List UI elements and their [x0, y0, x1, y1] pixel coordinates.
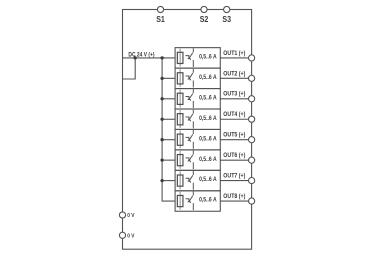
channel 5 box	[175, 129, 220, 149]
wire stub to channel 6	[162, 159, 175, 161]
svg-text:OUT6 (+): OUT6 (+)	[223, 152, 245, 159]
wire channel 7 output	[220, 180, 248, 182]
channel 6 box	[175, 150, 220, 170]
terminal 0 V #1	[119, 212, 125, 218]
svg-text:OUT2 (+): OUT2 (+)	[223, 70, 245, 77]
fuse channel 8	[177, 192, 183, 210]
terminal OUT5 (+)	[249, 137, 255, 143]
junction dot bus channel 4	[160, 118, 163, 121]
terminal OUT4 (+)	[249, 116, 255, 122]
wire stub to channel 2	[162, 77, 175, 79]
svg-text:DC 24 V (+): DC 24 V (+)	[128, 51, 154, 58]
svg-text:0,5..6 A: 0,5..6 A	[199, 54, 217, 61]
terminal S1	[157, 6, 163, 12]
terminal S2	[201, 6, 207, 12]
circuit-breaker contact channel 1	[186, 48, 194, 67]
circuit-breaker contact channel 2	[186, 69, 194, 88]
svg-text:OUT8 (+): OUT8 (+)	[223, 193, 245, 200]
svg-text:0 V: 0 V	[127, 213, 134, 219]
circuit-breaker contact channel 8	[186, 191, 194, 210]
svg-text:OUT5 (+): OUT5 (+)	[223, 132, 245, 139]
module outline	[123, 10, 252, 250]
junction dot bus channel 1	[160, 56, 163, 59]
svg-text:0,5..6 A: 0,5..6 A	[199, 115, 217, 122]
wire jog to left rail	[123, 58, 136, 79]
wire stub to channel 4	[162, 118, 175, 120]
svg-text:S3: S3	[222, 15, 231, 24]
fuse channel 5	[177, 130, 183, 148]
terminal OUT2 (+)	[249, 75, 255, 81]
svg-text:0,5..6 A: 0,5..6 A	[199, 74, 217, 81]
wire channel 8 output	[220, 200, 248, 202]
circuit-breaker contact channel 7	[186, 171, 194, 190]
terminal OUT8 (+)	[249, 198, 255, 204]
svg-text:OUT7 (+): OUT7 (+)	[223, 173, 245, 180]
terminal OUT7 (+)	[249, 178, 255, 184]
junction dot bus channel 5	[160, 138, 163, 141]
circuit-breaker contact channel 5	[186, 130, 194, 149]
svg-text:S1: S1	[156, 15, 165, 24]
terminal 0 V #2	[119, 232, 125, 238]
svg-text:0 V: 0 V	[127, 234, 134, 240]
svg-text:0,5..6 A: 0,5..6 A	[199, 94, 217, 101]
svg-text:0,5..6 A: 0,5..6 A	[199, 197, 217, 204]
fuse channel 6	[177, 151, 183, 169]
svg-text:0,5..6 A: 0,5..6 A	[199, 156, 217, 163]
terminal S3	[224, 6, 230, 12]
terminal OUT3 (+)	[249, 96, 255, 102]
svg-text:S2: S2	[200, 15, 209, 24]
circuit-breaker contact channel 4	[186, 110, 194, 129]
junction dot bus channel 3	[160, 97, 163, 100]
junction dot bus channel 2	[160, 77, 163, 80]
channel 1 box	[175, 48, 220, 68]
wire channel 1 output	[220, 57, 248, 59]
wire channel 5 output	[220, 139, 248, 141]
channel 3 box	[175, 89, 220, 109]
svg-text:0,5..6 A: 0,5..6 A	[199, 176, 217, 183]
fuse channel 4	[177, 110, 183, 128]
circuit-breaker contact channel 3	[186, 89, 194, 108]
channel 7 box	[175, 170, 220, 190]
wire channel 3 output	[220, 98, 248, 100]
fuse channel 1	[177, 49, 183, 67]
fuse channel 2	[177, 69, 183, 87]
svg-text:OUT1 (+): OUT1 (+)	[223, 50, 245, 57]
wire distribution bus	[162, 58, 175, 201]
fuse channel 7	[177, 171, 183, 189]
junction dot at jog	[134, 56, 137, 59]
junction dot bus channel 7	[160, 179, 163, 182]
fuse channel 3	[177, 90, 183, 108]
channel 8 box	[175, 191, 220, 211]
wire stub to channel 7	[162, 180, 175, 182]
channel 4 box	[175, 109, 220, 129]
svg-text:OUT3 (+): OUT3 (+)	[223, 91, 245, 98]
svg-text:OUT4 (+): OUT4 (+)	[223, 111, 245, 118]
terminal OUT6 (+)	[249, 157, 255, 163]
junction dot bus channel 6	[160, 159, 163, 162]
channel 2 box	[175, 68, 220, 88]
wire stub to channel 3	[162, 98, 175, 100]
wire channel 6 output	[220, 159, 248, 161]
wire DC 24 V feed	[123, 57, 176, 59]
wire channel 2 output	[220, 77, 248, 79]
wire channel 4 output	[220, 118, 248, 120]
wire stub to channel 5	[162, 139, 175, 141]
circuit-breaker contact channel 6	[186, 151, 194, 170]
terminal OUT1 (+)	[249, 55, 255, 61]
svg-text:0,5..6 A: 0,5..6 A	[199, 135, 217, 142]
